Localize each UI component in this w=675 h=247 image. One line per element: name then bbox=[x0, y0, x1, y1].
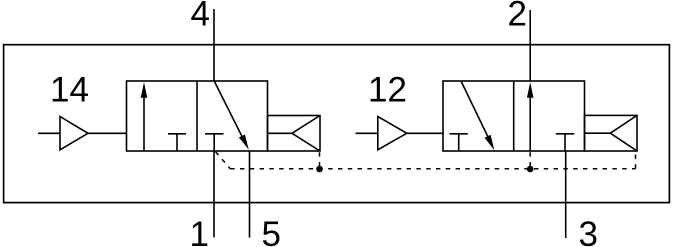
V1 blocked port T left cell bbox=[168, 134, 186, 151]
svg-text:4: 4 bbox=[191, 0, 210, 34]
V2 cell divider bbox=[513, 81, 515, 151]
svg-text:5: 5 bbox=[262, 215, 281, 247]
port 3 wire bbox=[565, 151, 567, 238]
dashed stub up to V2 spring bbox=[635, 152, 637, 169]
svg-text:12: 12 bbox=[368, 71, 407, 110]
V1 diagonal flow path 4-to-5 bbox=[214, 81, 245, 143]
valve V1 body bbox=[127, 81, 268, 151]
V2 flow arrow to port 2 bbox=[529, 96, 531, 151]
V1 flow arrow 1-to-4 bbox=[143, 96, 145, 151]
junction node dot 2 bbox=[527, 166, 534, 173]
V2 pneumatic spring return box bbox=[585, 115, 638, 151]
port 4 wire bbox=[213, 9, 215, 81]
port 2 wire bbox=[529, 10, 531, 81]
svg-text:2: 2 bbox=[508, 0, 527, 34]
svg-text:1: 1 bbox=[190, 215, 209, 247]
V1 blocked port T at port 1 bbox=[205, 134, 224, 151]
wire pilot to V1 bbox=[88, 132, 127, 134]
pilot channel dashed horizontal bbox=[230, 168, 635, 170]
pilot port 14 wire bbox=[38, 132, 60, 134]
V2 blocked port T at port 3 bbox=[556, 134, 574, 151]
svg-text:14: 14 bbox=[50, 71, 89, 110]
V2 spring triangle bbox=[585, 115, 638, 151]
V2 blocked port T left cell bbox=[450, 134, 468, 151]
V1 cell divider bbox=[196, 81, 198, 151]
dashed stub under V2 bbox=[529, 152, 531, 169]
V2 diagonal flow path bbox=[461, 81, 491, 144]
wire pilot to V2 bbox=[407, 132, 443, 134]
V1 pneumatic spring return box bbox=[268, 116, 321, 152]
svg-text:3: 3 bbox=[579, 215, 598, 247]
V2 pilot triangle 12 bbox=[378, 117, 407, 150]
dashed stub under V1 spring bbox=[319, 152, 321, 169]
enclosure frame bbox=[4, 45, 670, 203]
valve V2 body bbox=[443, 81, 585, 151]
pilot port 12 wire bbox=[356, 132, 378, 134]
port 5 wire bbox=[249, 151, 251, 238]
V1 pilot triangle 14 bbox=[60, 117, 88, 150]
V1 spring triangle bbox=[268, 116, 321, 152]
port 1 wire bbox=[213, 151, 215, 237]
junction node dot 1 bbox=[316, 166, 323, 173]
pilot channel dashed diagonal from port 1 bbox=[216, 152, 231, 169]
